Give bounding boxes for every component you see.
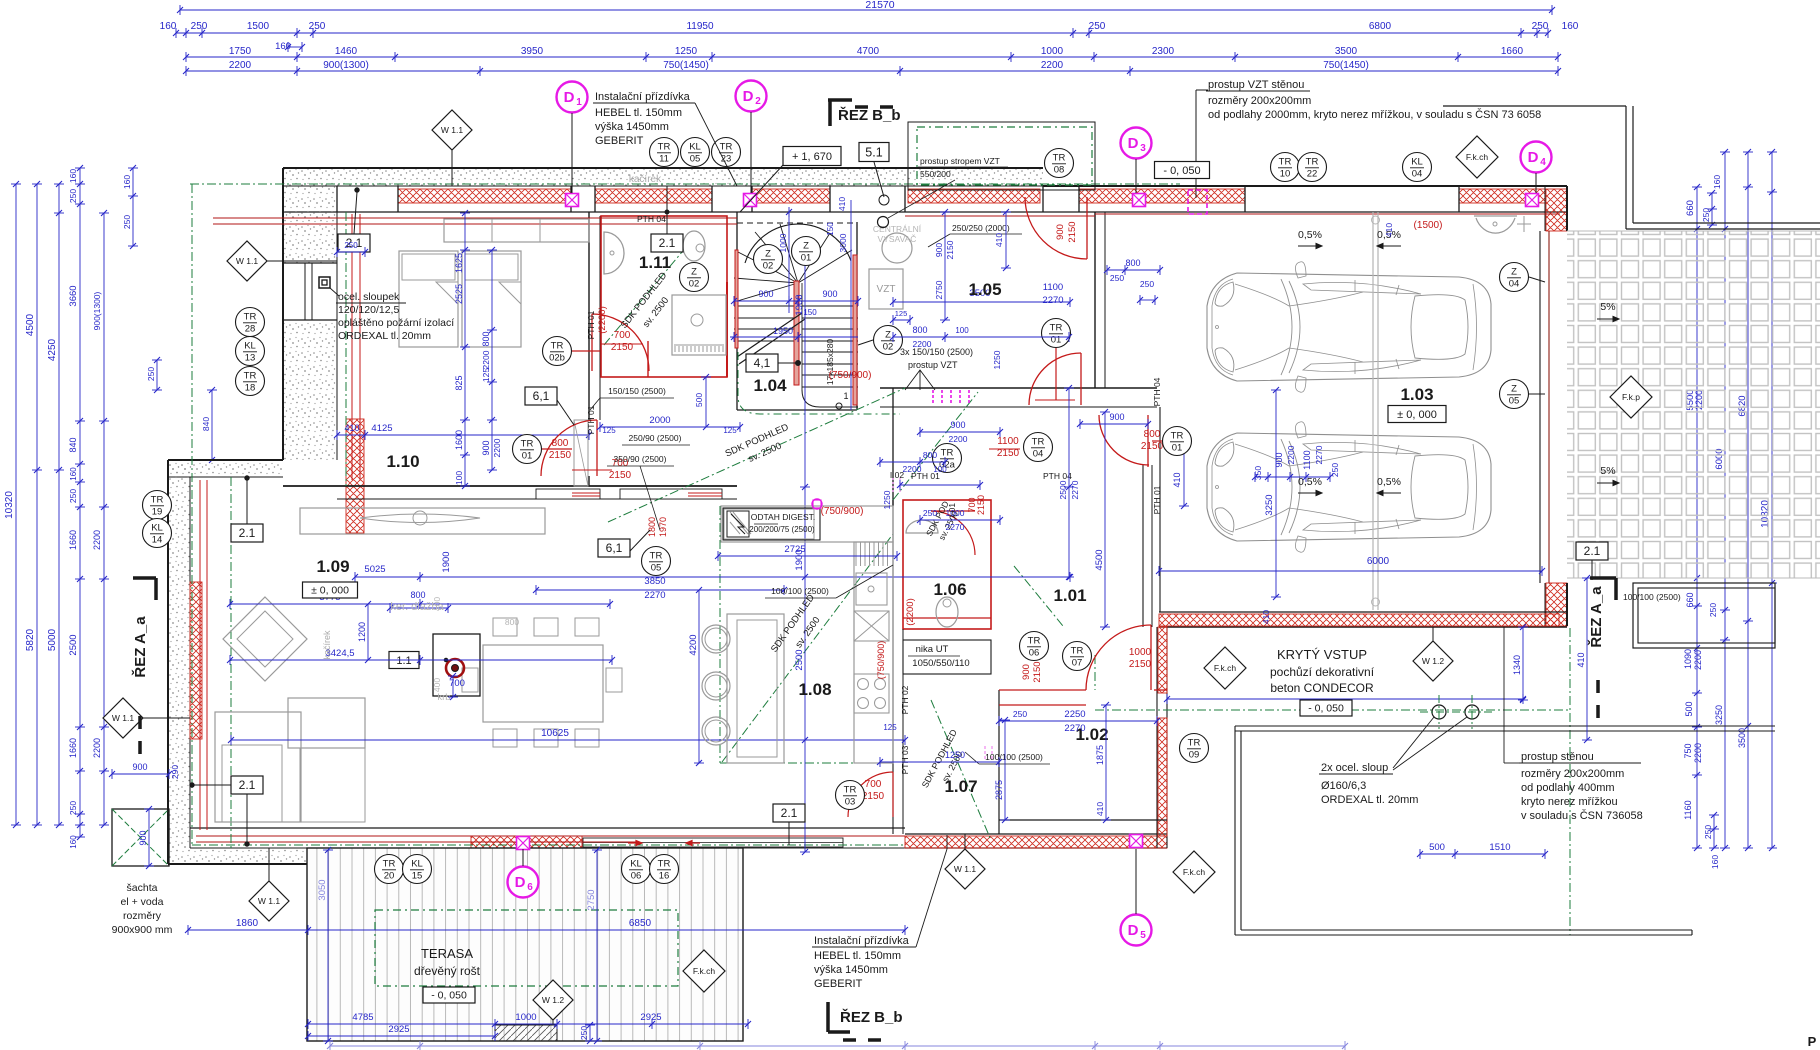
svg-text:900: 900 [481, 440, 491, 455]
svg-text:5: 5 [1140, 930, 1146, 941]
svg-text:28: 28 [245, 324, 256, 335]
svg-text:TR: TR [650, 551, 663, 562]
svg-text:800: 800 [1144, 429, 1161, 440]
paving grid right side [1567, 231, 1820, 578]
svg-text:410: 410 [1261, 610, 1271, 624]
svg-text:1.09: 1.09 [316, 557, 349, 576]
svg-text:TR: TR [1279, 157, 1292, 168]
svg-text:1000: 1000 [515, 1012, 536, 1023]
svg-text:PTH 03: PTH 03 [900, 745, 910, 774]
svg-text:TR: TR [151, 495, 164, 506]
green dash-dot inner perimeter [190, 183, 1180, 185]
red inner parallel lines along exterior walls [352, 214, 360, 480]
top dimension chain overall 21570 [180, 9, 1552, 11]
svg-text:1250: 1250 [882, 490, 892, 509]
svg-text:2: 2 [755, 96, 761, 107]
marker TR/05 [642, 547, 671, 576]
door arc 1.06 wc [931, 511, 975, 555]
svg-text:900: 900 [934, 243, 944, 257]
svg-text:21570: 21570 [865, 0, 894, 11]
svg-text:0,5%: 0,5% [1377, 476, 1401, 488]
svg-text:13: 13 [245, 353, 256, 364]
svg-text:TR: TR [1028, 636, 1041, 647]
marker Z/02 [680, 263, 709, 292]
svg-text:výška 1450mm: výška 1450mm [595, 121, 669, 133]
svg-text:od podlahy 400mm: od podlahy 400mm [1521, 782, 1615, 794]
left exterior wall upper (bedroom) [283, 186, 337, 460]
marker TR/23 [712, 138, 741, 167]
svg-text:3660: 3660 [68, 285, 79, 306]
svg-text:TR: TR [1053, 153, 1066, 164]
left small dims near wall top [132, 168, 134, 246]
svg-text:500: 500 [1684, 701, 1694, 716]
stairs radial treads [734, 283, 798, 302]
marker KL/13 [236, 337, 265, 366]
svg-text:10: 10 [1280, 169, 1291, 180]
svg-text:1.1: 1.1 [396, 655, 411, 667]
fireplace krb [433, 634, 480, 696]
svg-text:3x 150/150 (2500): 3x 150/150 (2500) [900, 347, 973, 357]
svg-text:700: 700 [865, 779, 882, 790]
svg-text:250: 250 [1703, 825, 1713, 839]
svg-text:D: D [743, 88, 754, 105]
marker W 1.1 [432, 110, 472, 150]
svg-text:rozměry 200x200mm: rozměry 200x200mm [1521, 768, 1624, 780]
svg-text:18: 18 [245, 383, 256, 394]
svg-text:500: 500 [1429, 842, 1445, 853]
svg-text:D: D [1128, 922, 1139, 939]
step wall between upper and lower left walls [168, 460, 283, 477]
svg-text:01: 01 [522, 451, 533, 462]
svg-text:125: 125 [602, 426, 616, 435]
svg-text:1090: 1090 [1683, 649, 1693, 669]
svg-text:2725: 2725 [784, 544, 805, 555]
svg-text:Ø160/6,3: Ø160/6,3 [1321, 780, 1366, 792]
svg-text:TERASA: TERASA [421, 946, 473, 961]
svg-text:el + voda: el + voda [121, 896, 164, 908]
garage bottom wall [1159, 611, 1567, 613]
svg-text:10320: 10320 [4, 491, 15, 519]
svg-text:2270: 2270 [1064, 723, 1085, 734]
marker TR/10 [1271, 153, 1300, 182]
svg-text:250: 250 [1708, 603, 1718, 617]
marker F.k.p [1610, 376, 1652, 418]
wall between 1.10 and 1.09 [283, 485, 737, 487]
svg-text:2x ocel. sloup: 2x ocel. sloup [1321, 762, 1388, 774]
svg-text:1660: 1660 [1501, 46, 1524, 57]
svg-text:ODTAH DIGEST.: ODTAH DIGEST. [751, 512, 816, 522]
detail marker D6 [508, 867, 539, 898]
svg-text:2150: 2150 [549, 450, 572, 461]
svg-text:05: 05 [690, 154, 701, 165]
kitchen sink [856, 573, 887, 605]
svg-text:100/100 (2500): 100/100 (2500) [985, 752, 1043, 762]
garage dims [1159, 570, 1542, 572]
svg-text:2500: 2500 [68, 634, 79, 655]
svg-text:3850: 3850 [644, 576, 665, 587]
svg-text:KL: KL [630, 859, 642, 870]
svg-text:0,5%: 0,5% [1298, 229, 1322, 241]
marker F.k.ch [1204, 647, 1246, 689]
svg-text:2150: 2150 [1067, 221, 1078, 242]
svg-text:250: 250 [1110, 273, 1124, 283]
svg-text:Instalační přízdívka: Instalační přízdívka [595, 91, 691, 103]
svg-text:410: 410 [837, 197, 847, 211]
svg-text:1.04: 1.04 [753, 376, 787, 395]
svg-text:2.1: 2.1 [1584, 544, 1601, 558]
svg-text:4: 4 [1540, 157, 1546, 168]
svg-text:150/150 (2500): 150/150 (2500) [608, 386, 666, 396]
svg-text:15: 15 [412, 871, 423, 882]
svg-text:410: 410 [1172, 472, 1182, 487]
roof/leader outline top right [1443, 105, 1626, 107]
svg-text:6800: 6800 [1369, 21, 1392, 32]
svg-text:02: 02 [883, 342, 894, 353]
marker KL/15 [403, 855, 432, 884]
svg-text:2200: 2200 [949, 434, 968, 444]
svg-text:5820: 5820 [25, 628, 36, 651]
marker TR/20 [375, 855, 404, 884]
marker W 1.1 [249, 881, 289, 921]
svg-text:100: 100 [454, 471, 464, 485]
stairs straight treads left [734, 305, 794, 307]
svg-text:100: 100 [933, 465, 947, 474]
red crosshatch segment left wall [190, 582, 202, 739]
svg-text:F.k.ch: F.k.ch [1466, 152, 1488, 162]
svg-text:1100: 1100 [997, 436, 1019, 447]
svg-text:250: 250 [191, 21, 208, 32]
kitchen dish rack [855, 542, 857, 566]
cabinet column near 1.10 door [574, 420, 588, 486]
svg-text:4500: 4500 [1094, 549, 1105, 570]
svg-text:4250: 4250 [47, 338, 58, 361]
stairs section cut diagonal [737, 313, 802, 357]
svg-text:(2200): (2200) [597, 306, 608, 333]
svg-text:nika UT: nika UT [916, 644, 949, 655]
garage center gray double line [1372, 212, 1374, 610]
leader line from VZT note to wall [1195, 90, 1197, 198]
svg-text:3: 3 [1140, 143, 1146, 154]
marker KL/05 [681, 138, 710, 167]
top dimension chain row 3 [186, 56, 1558, 58]
marker Z/02 [874, 326, 903, 355]
svg-text:840: 840 [68, 437, 78, 452]
svg-text:2270: 2270 [1070, 480, 1080, 499]
svg-text:GEBERIT: GEBERIT [814, 978, 863, 990]
vent opening marker [1526, 194, 1539, 207]
bathroom 1.11 toilet [683, 231, 705, 261]
svg-text:1250: 1250 [992, 350, 1002, 369]
svg-text:1100: 1100 [1043, 282, 1063, 293]
marker TR/01 [1163, 427, 1192, 456]
svg-text:2270: 2270 [1314, 445, 1324, 464]
marker Z/04 [1500, 263, 1529, 292]
svg-text:PTH 02: PTH 02 [900, 685, 910, 714]
svg-text:1100: 1100 [1302, 450, 1312, 469]
svg-text:04: 04 [1412, 169, 1423, 180]
kitchen right wall x=893..903 [892, 500, 894, 763]
svg-text:02: 02 [763, 261, 774, 272]
detail marker D2 [736, 81, 767, 112]
kitchen fridge X [854, 611, 889, 641]
bottom wall of rooms 1.07/1.02 [905, 833, 1167, 835]
svg-text:1750: 1750 [229, 46, 252, 57]
marker W 1.1 [945, 849, 985, 889]
green dashed rect above 1.05 (instal. zone) [908, 122, 1095, 190]
svg-text:11: 11 [659, 154, 669, 165]
svg-text:11950: 11950 [686, 21, 714, 32]
svg-text:800: 800 [923, 450, 937, 460]
svg-text:1875: 1875 [1095, 745, 1105, 765]
svg-text:250: 250 [1701, 208, 1711, 222]
svg-text:F.k.ch: F.k.ch [693, 966, 715, 976]
svg-text:1200: 1200 [357, 622, 367, 642]
nika UT box [903, 640, 991, 674]
svg-text:1000: 1000 [946, 508, 965, 518]
svg-text:± 0, 000: ± 0, 000 [1397, 409, 1437, 421]
top dimension chain row 2b (160 sub) [288, 46, 302, 48]
svg-text:410: 410 [1095, 802, 1105, 816]
top area dims small [337, 251, 365, 253]
exterior wall top band with gravel speckle [283, 168, 1043, 186]
svg-text:900: 900 [138, 830, 148, 845]
svg-text:2250: 2250 [1064, 709, 1085, 720]
svg-text:800: 800 [505, 617, 519, 627]
svg-text:840: 840 [201, 417, 211, 431]
marker TR/22 [1298, 153, 1327, 182]
window/jamb marks top wall [336, 186, 338, 212]
dims kryty vstup [1522, 627, 1524, 700]
svg-text:5000: 5000 [47, 628, 58, 651]
room 1.06 red walls [903, 500, 991, 629]
svg-text:900(1300): 900(1300) [92, 291, 102, 330]
marker Z/01 [792, 237, 821, 266]
svg-text:01: 01 [1051, 335, 1062, 346]
marker KL/04 [1403, 153, 1432, 182]
svg-text:TR: TR [941, 448, 954, 459]
svg-text:- 0, 050: - 0, 050 [1163, 165, 1200, 177]
terasa deck [307, 848, 743, 1041]
svg-text:1340: 1340 [1512, 655, 1522, 675]
svg-text:TR: TR [521, 439, 534, 450]
svg-text:P: P [1808, 1034, 1817, 1049]
svg-text:750(1450): 750(1450) [1323, 60, 1369, 71]
marker W 1.2 [533, 980, 573, 1020]
svg-text:160: 160 [69, 467, 78, 481]
marker KL/06 [622, 855, 651, 884]
svg-text:900x900 mm: 900x900 mm [112, 924, 173, 936]
svg-text:250: 250 [923, 508, 937, 518]
svg-text:08: 08 [1054, 165, 1065, 176]
door arc 1.10 lower [541, 420, 597, 476]
marker F.k.ch [683, 950, 725, 992]
svg-text:2150: 2150 [609, 470, 632, 481]
wall right of rooms 1.01/1.02 (to kryty vstup) [1156, 627, 1158, 848]
svg-text:1900: 1900 [441, 551, 452, 572]
svg-text:TR: TR [1071, 646, 1084, 657]
svg-text:1900: 1900 [794, 294, 805, 315]
svg-text:160: 160 [69, 835, 78, 849]
bottom wall windows (sliding door) [583, 838, 843, 847]
svg-text:W 1.1: W 1.1 [441, 125, 463, 135]
svg-text:PTH 01: PTH 01 [586, 405, 596, 434]
svg-text:Z: Z [1511, 267, 1517, 278]
svg-text:3000: 3000 [838, 233, 848, 252]
svg-text:100: 100 [955, 326, 969, 335]
svg-text:660: 660 [1685, 200, 1696, 216]
1.06 wc fixtures [906, 520, 938, 533]
svg-text:1.08: 1.08 [798, 680, 831, 699]
svg-text:2.1: 2.1 [239, 778, 256, 792]
svg-text:(750/900): (750/900) [876, 641, 886, 680]
svg-text:1970: 1970 [658, 517, 668, 537]
svg-text:120/120/12,5: 120/120/12,5 [338, 304, 399, 316]
red crosshatch segments in top wall [398, 189, 571, 203]
kitchen stove [854, 674, 889, 713]
svg-text:900: 900 [758, 289, 773, 299]
boxed labels others [525, 387, 557, 405]
svg-text:825: 825 [454, 375, 464, 390]
kitchen dims [718, 555, 897, 557]
svg-text:4500: 4500 [25, 313, 36, 336]
wall between 1.01 and garage [1142, 465, 1144, 627]
1.10 blue interior dim lines [464, 213, 466, 486]
bedroom 1.10 beds [399, 251, 458, 347]
sachta square [112, 809, 169, 866]
bathroom 1.11 sink [604, 232, 624, 274]
svg-text:4,1: 4,1 [754, 356, 771, 370]
wall between 1.07 and 1.02 [998, 690, 1000, 834]
svg-text:160: 160 [160, 21, 177, 32]
svg-text:1.10: 1.10 [386, 452, 419, 471]
bathroom 1.11 shower [672, 295, 726, 355]
svg-text:200/200/75 (2500): 200/200/75 (2500) [749, 525, 815, 534]
detail marker D4 [1521, 142, 1552, 173]
svg-text:F.k.p: F.k.p [1622, 392, 1640, 402]
svg-text:D: D [1528, 149, 1539, 166]
svg-text:(1500): (1500) [1414, 220, 1443, 231]
svg-text:2200: 2200 [1286, 445, 1296, 464]
svg-text:1250: 1250 [945, 750, 965, 760]
svg-text:HEBEL tl. 150mm: HEBEL tl. 150mm [814, 950, 901, 962]
vent opening marker [1130, 835, 1143, 848]
windows in wall 1.10/1.09 [536, 489, 600, 499]
svg-text:2150: 2150 [997, 448, 1020, 459]
svg-text:500: 500 [694, 393, 704, 407]
svg-text:1.05: 1.05 [968, 280, 1001, 299]
svg-text:1.11: 1.11 [639, 253, 671, 272]
svg-text:KL: KL [689, 142, 701, 153]
svg-text:TR: TR [1171, 431, 1184, 442]
svg-text:prostup VZT stěnou: prostup VZT stěnou [1208, 79, 1304, 91]
svg-text:100/100 (2500): 100/100 (2500) [771, 586, 829, 596]
svg-text:2270: 2270 [644, 590, 665, 601]
svg-text:výška 1450mm: výška 1450mm [814, 964, 888, 976]
svg-text:1625: 1625 [454, 253, 464, 273]
marker TR/18 [236, 367, 265, 396]
svg-text:beton CONDECOR: beton CONDECOR [1270, 681, 1374, 695]
svg-text:2270: 2270 [946, 522, 965, 532]
svg-text:1000: 1000 [1041, 46, 1064, 57]
svg-text:410: 410 [344, 423, 359, 433]
svg-text:3500: 3500 [1335, 46, 1358, 57]
svg-text:125: 125 [895, 309, 908, 318]
svg-text:05: 05 [1509, 396, 1520, 407]
marker TR/07 [1063, 642, 1092, 671]
svg-text:TR: TR [658, 142, 671, 153]
svg-text:6,1: 6,1 [533, 389, 550, 403]
svg-text:3250: 3250 [1714, 705, 1724, 725]
wall 1.05/1.01 bottom (horizontal) y=388..407 [880, 387, 1157, 389]
svg-text:W 1.1: W 1.1 [236, 256, 258, 266]
dining table and chairs [483, 645, 603, 722]
1.09 dims [355, 576, 1070, 578]
svg-text:250: 250 [68, 801, 78, 815]
svg-text:ocel. sloupek: ocel. sloupek [338, 291, 400, 303]
dim 3850/2270 [536, 589, 784, 591]
svg-text:TR: TR [1306, 157, 1319, 168]
car 1 in garage 1.03 [1207, 273, 1491, 381]
svg-text:KL: KL [244, 341, 256, 352]
right mid double-line rectangle (rez marker frame) [1633, 583, 1775, 648]
living 1.09 sideboard with TV [300, 508, 545, 534]
misc blue dims upper area [600, 426, 740, 428]
marker TR/28 [236, 308, 265, 337]
svg-text:rozměry: rozměry [123, 910, 162, 922]
svg-text:410: 410 [1576, 652, 1586, 667]
blue dims inside paving [1586, 578, 1588, 740]
centralni vysavac [882, 233, 912, 263]
svg-text:800: 800 [481, 331, 491, 346]
svg-text:250: 250 [122, 215, 132, 229]
svg-text:6000: 6000 [1367, 556, 1390, 567]
svg-text:2300: 2300 [1152, 46, 1175, 57]
svg-text:2150: 2150 [945, 240, 955, 259]
marker W 1.1 [227, 241, 267, 281]
wall between 1.05 and garage (vertical) [1094, 212, 1096, 388]
svg-text:900: 900 [1109, 412, 1124, 422]
svg-text:opláštěno požární izolací: opláštěno požární izolací [338, 317, 454, 329]
svg-text:2200: 2200 [92, 738, 102, 758]
svg-text:W 1.1: W 1.1 [112, 713, 134, 723]
svg-text:06: 06 [1029, 648, 1040, 659]
terasa concrete pad [495, 1025, 557, 1041]
svg-text:350/90 (2500): 350/90 (2500) [614, 454, 667, 464]
svg-text:900: 900 [1274, 452, 1284, 467]
svg-text:1660: 1660 [68, 530, 78, 550]
svg-text:5025: 5025 [364, 564, 385, 575]
svg-text:01: 01 [801, 253, 812, 264]
kitchen 1.08 counters [721, 506, 893, 542]
svg-text:20: 20 [384, 871, 395, 882]
svg-text:700: 700 [614, 330, 631, 341]
dims near 1.05 [893, 336, 1069, 338]
svg-text:TR: TR [244, 312, 257, 323]
svg-text:TR: TR [844, 785, 857, 796]
wall right of 1.10 / bathroom 1.11 left [588, 212, 590, 420]
svg-text:ŘEZ B_b: ŘEZ B_b [840, 1008, 903, 1026]
svg-text:2150: 2150 [1032, 661, 1043, 682]
bathroom 1.11 red walls [601, 216, 727, 377]
svg-text:ŘEZ A_a: ŘEZ A_a [1587, 586, 1605, 648]
steel columns circles [1432, 705, 1446, 719]
svg-text:250: 250 [579, 1026, 589, 1040]
svg-text:10625: 10625 [541, 728, 569, 739]
svg-text:kačírek: kačírek [629, 174, 662, 185]
svg-text:1950: 1950 [773, 326, 793, 336]
bottom-left corner wall with speckle [168, 848, 308, 864]
svg-text:5%: 5% [1600, 301, 1615, 313]
